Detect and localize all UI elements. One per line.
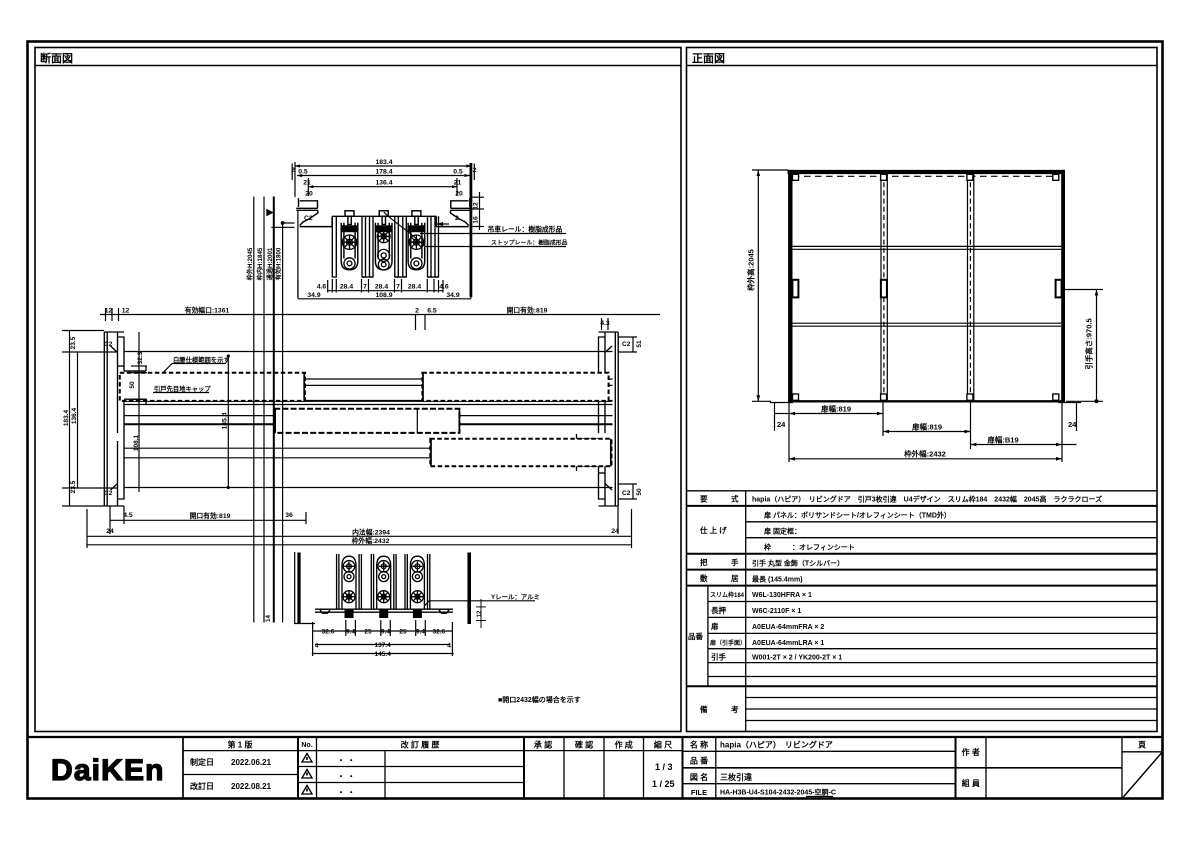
svg-text:扉: 扉 (710, 621, 719, 631)
svg-text:24: 24 (106, 528, 114, 535)
svg-text:改訂日: 改訂日 (190, 781, 214, 791)
svg-text:有効H:1800: 有効H:1800 (275, 247, 283, 280)
svg-text:0.5: 0.5 (453, 169, 463, 176)
svg-text:三枚引違: 三枚引違 (720, 772, 752, 782)
svg-text:W6L-130HFRA × 1: W6L-130HFRA × 1 (752, 592, 812, 599)
svg-text:12: 12 (473, 202, 480, 210)
svg-text:枠内H:1845: 枠内H:1845 (256, 247, 264, 281)
svg-text:式: 式 (731, 494, 739, 504)
svg-text:4.6: 4.6 (439, 284, 449, 291)
svg-text:引手 丸型 金飾（Tシルバー）: 引手 丸型 金飾（Tシルバー） (752, 558, 844, 567)
svg-text:24: 24 (777, 420, 786, 429)
svg-text:12: 12 (476, 610, 483, 617)
svg-text:枠外H:2045: 枠外H:2045 (246, 247, 254, 281)
svg-text:備: 備 (700, 704, 708, 714)
svg-text:7: 7 (363, 284, 367, 291)
svg-text:把: 把 (700, 557, 708, 567)
svg-text:承 認: 承 認 (534, 740, 552, 750)
svg-text:12: 12 (105, 308, 113, 315)
svg-text:178.4: 178.4 (375, 169, 392, 176)
svg-text:23.5: 23.5 (70, 480, 77, 493)
svg-text:品 番: 品 番 (690, 756, 709, 766)
svg-text:DaiKEn: DaiKEn (51, 754, 165, 787)
svg-text:A0EUA-64mmFRA × 2: A0EUA-64mmFRA × 2 (752, 624, 824, 631)
svg-text:作 成: 作 成 (615, 740, 633, 750)
svg-text:■開口2432幅の場合を示す: ■開口2432幅の場合を示す (498, 695, 581, 704)
svg-text:2: 2 (415, 308, 419, 315)
svg-text:14: 14 (265, 615, 272, 622)
svg-text:6.5: 6.5 (427, 308, 437, 315)
svg-text:C2: C2 (622, 490, 631, 497)
svg-text:最長 (145.4mm): 最長 (145.4mm) (752, 574, 803, 583)
svg-text:要: 要 (700, 495, 708, 504)
svg-text:C2: C2 (104, 490, 113, 497)
svg-text:24: 24 (611, 528, 619, 535)
svg-text:名 称: 名 称 (690, 740, 708, 750)
svg-text:0.5: 0.5 (298, 169, 308, 176)
svg-text:32.3: 32.3 (137, 351, 144, 364)
svg-text:50: 50 (129, 381, 136, 389)
svg-text:扉幅:819: 扉幅:819 (911, 422, 942, 432)
svg-text:2: 2 (291, 167, 295, 174)
svg-text:108.1: 108.1 (133, 434, 140, 451)
svg-text:引手高さ:970.5: 引手高さ:970.5 (1084, 318, 1094, 369)
svg-text:32.6: 32.6 (432, 628, 445, 635)
svg-text:頁: 頁 (1138, 741, 1146, 750)
svg-text:図 名: 図 名 (690, 772, 708, 782)
svg-text:有効幅口:1361: 有効幅口:1361 (185, 306, 230, 315)
svg-text:A0EUA-64mmLRA × 1: A0EUA-64mmLRA × 1 (752, 640, 824, 647)
svg-text:136.4: 136.4 (375, 180, 392, 187)
svg-text:136.4: 136.4 (71, 407, 78, 424)
svg-text:扉（引手面）: 扉（引手面） (709, 639, 746, 647)
svg-text:枠外幅:2432: 枠外幅:2432 (903, 448, 946, 458)
svg-text:34.9: 34.9 (307, 292, 320, 299)
svg-text:20: 20 (455, 191, 463, 198)
svg-text:敷: 敷 (700, 573, 708, 583)
svg-text:枠外幅:2432: 枠外幅:2432 (351, 536, 390, 545)
svg-text:枠 ：オレフィンシート: 枠 ：オレフィンシート (764, 543, 855, 552)
svg-text:FILE: FILE (691, 788, 707, 797)
svg-text:通過H:2001: 通過H:2001 (266, 247, 274, 280)
svg-text:4.5: 4.5 (123, 512, 133, 519)
svg-text:縮 尺: 縮 尺 (654, 740, 672, 750)
svg-text:23.5: 23.5 (70, 336, 77, 349)
svg-text:開口有効:819: 開口有効:819 (190, 511, 231, 520)
svg-text:断面図: 断面図 (40, 51, 73, 65)
svg-text:4: 4 (315, 643, 319, 650)
svg-text:・ ・: ・ ・ (337, 772, 355, 781)
svg-text:21: 21 (303, 180, 311, 187)
svg-text:内法幅:2394: 内法幅:2394 (352, 527, 390, 536)
svg-text:7: 7 (396, 284, 400, 291)
svg-text:4.3: 4.3 (600, 320, 610, 327)
svg-text:4.6: 4.6 (317, 284, 327, 291)
svg-text:引戸先目地キャップ: 引戸先目地キャップ (154, 384, 211, 393)
svg-text:108.9: 108.9 (375, 292, 392, 299)
svg-text:白腰仕様範囲を示す: 白腰仕様範囲を示す (173, 355, 230, 364)
svg-text:引手: 引手 (711, 652, 726, 662)
svg-text:16: 16 (473, 216, 480, 224)
svg-text:hapia（ハピア） リビングドア 引戸3枚引違 U4デザイ: hapia（ハピア） リビングドア 引戸3枚引違 U4デザイン スリム枠184 … (752, 495, 1102, 504)
svg-text:28.4: 28.4 (375, 284, 388, 291)
svg-text:長押: 長押 (711, 605, 726, 615)
svg-text:4: 4 (447, 643, 451, 650)
svg-text:24: 24 (1068, 420, 1077, 429)
svg-text:9.4: 9.4 (416, 628, 425, 635)
svg-text:品番: 品番 (688, 631, 703, 641)
svg-text:21: 21 (454, 180, 462, 187)
svg-text:C2: C2 (104, 341, 113, 348)
svg-text:・ ・: ・ ・ (337, 756, 355, 765)
svg-text:hapia（ハピア） リビングドア: hapia（ハピア） リビングドア (720, 740, 833, 750)
svg-text:Yレール：アルミ: Yレール：アルミ (491, 593, 540, 601)
svg-text:137.4: 137.4 (374, 642, 391, 649)
svg-text:確 認: 確 認 (575, 740, 593, 750)
svg-text:制定日: 制定日 (190, 757, 214, 767)
svg-text:34.9: 34.9 (446, 292, 459, 299)
svg-text:2022.06.21: 2022.06.21 (231, 758, 272, 767)
svg-text:扉 固定框：: 扉 固定框： (763, 527, 801, 536)
svg-text:扉 パネル：ポリサンドシート/オレフィンシート（TMD外）: 扉 パネル：ポリサンドシート/オレフィンシート（TMD外） (763, 511, 951, 520)
svg-text:改 訂 履 歴: 改 訂 履 歴 (401, 740, 440, 750)
svg-text:ストップレール：樹脂成形品: ストップレール：樹脂成形品 (491, 239, 568, 247)
svg-text:145.4: 145.4 (375, 651, 392, 658)
svg-text:No.: No. (301, 742, 312, 749)
svg-text:50: 50 (636, 488, 643, 496)
svg-text:仕 上 げ: 仕 上 げ (699, 525, 727, 535)
svg-text:C2: C2 (622, 341, 631, 348)
svg-text:開口有効:819: 開口有効:819 (507, 306, 548, 315)
svg-text:第 1 版: 第 1 版 (228, 740, 253, 750)
svg-text:W6C-2110F × 1: W6C-2110F × 1 (752, 608, 801, 615)
svg-text:枠外高:2045: 枠外高:2045 (746, 249, 756, 292)
svg-text:28.4: 28.4 (408, 284, 421, 291)
svg-text:正面図: 正面図 (692, 51, 725, 65)
svg-text:作 者: 作 者 (962, 747, 980, 757)
svg-text:183.4: 183.4 (375, 159, 392, 166)
svg-text:手: 手 (731, 557, 739, 567)
svg-text:組 員: 組 員 (962, 778, 980, 788)
svg-text:145.4: 145.4 (222, 412, 229, 429)
svg-text:12: 12 (122, 308, 130, 315)
svg-text:吊車レール：樹脂成形品: 吊車レール：樹脂成形品 (488, 225, 563, 234)
svg-text:考: 考 (731, 704, 739, 714)
svg-text:28.4: 28.4 (340, 284, 353, 291)
svg-text:扉幅:B19: 扉幅:B19 (986, 435, 1018, 445)
svg-text:20: 20 (305, 191, 313, 198)
svg-text:9.4: 9.4 (381, 628, 390, 635)
svg-text:W001-2T × 2 / YK200-2T × 1: W001-2T × 2 / YK200-2T × 1 (752, 655, 842, 662)
svg-text:36: 36 (285, 512, 293, 519)
svg-text:9.4: 9.4 (346, 628, 355, 635)
svg-text:25: 25 (364, 628, 372, 635)
svg-text:スリム枠184: スリム枠184 (710, 591, 745, 599)
svg-text:183.4: 183.4 (63, 409, 70, 426)
svg-text:51: 51 (636, 340, 643, 348)
svg-text:扉幅:819: 扉幅:819 (820, 404, 851, 414)
svg-text:2022.08.21: 2022.08.21 (231, 782, 272, 791)
svg-text:25: 25 (399, 628, 407, 635)
svg-text:HA-H3B-U4-S104-2432-2045-空胴-C: HA-H3B-U4-S104-2432-2045-空胴-C (720, 788, 836, 797)
svg-text:1 / 3: 1 / 3 (655, 762, 673, 772)
svg-text:32.6: 32.6 (322, 628, 335, 635)
svg-text:1 / 25: 1 / 25 (652, 779, 675, 789)
svg-text:2: 2 (473, 167, 477, 174)
svg-text:居: 居 (731, 574, 739, 583)
svg-text:・ ・: ・ ・ (337, 788, 355, 797)
